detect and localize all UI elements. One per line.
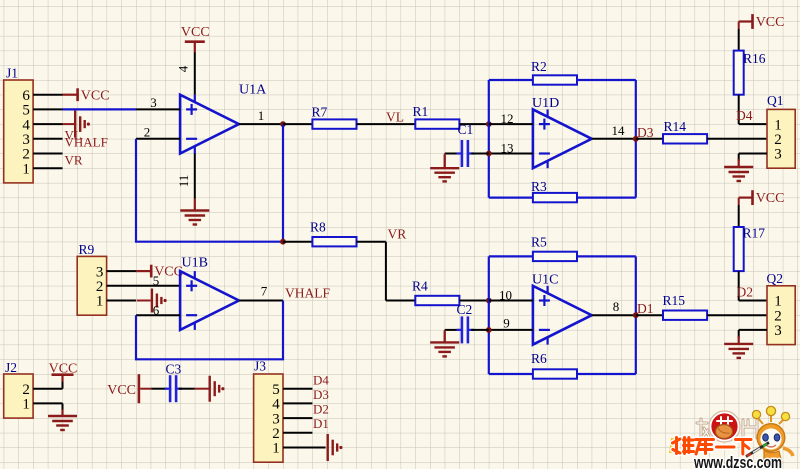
ground (rotated) at C3 — [210, 376, 225, 402]
net label D4 at J3 — [313, 372, 329, 387]
wire J1 pin 3 stub — [33, 138, 62, 140]
wire VR to R4 — [386, 300, 415, 302]
svg-text:R6: R6 — [531, 351, 547, 366]
wire J3 pin 2 stub — [283, 432, 312, 434]
ground riser at Q1 — [738, 154, 740, 162]
junction at net D3 — [633, 136, 639, 142]
wire U1C loop bottom left — [489, 373, 533, 375]
resistor R4 — [415, 296, 459, 305]
svg-text:1: 1 — [774, 294, 782, 310]
svg-text:6: 6 — [22, 88, 30, 104]
J1 pin 1 — [22, 161, 30, 177]
wire J2 pin 2 stub — [33, 388, 62, 390]
wire U1A output — [239, 123, 283, 125]
Q2 pin 3 — [774, 323, 782, 339]
wire C2 to junction — [471, 329, 489, 331]
power VCC above J2 — [49, 361, 78, 381]
U1A pin number 1 — [258, 108, 265, 123]
net label D1 — [637, 301, 654, 316]
connector R9 — [77, 256, 106, 315]
wire U1D loop top left — [489, 79, 533, 81]
svg-text:VR: VR — [65, 153, 83, 168]
J3 pin 3 — [272, 411, 280, 427]
svg-text:5: 5 — [272, 382, 280, 398]
Q1 pin 2 — [774, 132, 782, 148]
wire U1C loop left leg — [488, 256, 490, 374]
connector J2 — [4, 374, 33, 418]
svg-text:R7: R7 — [312, 105, 328, 120]
J3 pin 4 — [272, 397, 280, 413]
net label VL — [386, 109, 404, 124]
wire J2 pin 1 riser — [62, 403, 64, 410]
resistor R6 — [533, 369, 577, 378]
label Q1 — [767, 93, 784, 108]
svg-text:1: 1 — [258, 108, 265, 123]
junction at U1D pin 13 — [486, 151, 492, 157]
label J2 — [5, 360, 17, 375]
wire J2 pin 1 stub — [33, 402, 62, 404]
wire J2 pin 2 riser — [62, 381, 64, 389]
wire VCC to R17 — [738, 205, 740, 227]
net label D2 — [737, 284, 754, 299]
svg-text:D4: D4 — [313, 372, 329, 387]
svg-text:R17: R17 — [743, 226, 766, 241]
wire R15 to Q2 pin 2 — [707, 314, 767, 316]
U1A pin number 11 (rotated) — [176, 175, 191, 188]
resistor R17 — [734, 227, 744, 271]
junction at U1C pin 10 — [486, 298, 492, 304]
power VCC top right — [739, 14, 785, 30]
wire D1 to R15 — [636, 314, 663, 316]
wire U1C loop top left — [489, 255, 533, 257]
svg-text:1: 1 — [272, 441, 280, 457]
J1 pin 3 — [22, 132, 30, 148]
connector Q1 — [767, 109, 795, 168]
svg-text:C1: C1 — [458, 122, 474, 137]
label R17 — [743, 226, 766, 241]
svg-text:VCC: VCC — [81, 88, 110, 103]
wire VCC to C3 (red) — [140, 388, 167, 390]
wire Q2 pin 3 stub — [739, 329, 767, 331]
svg-text:2: 2 — [774, 308, 782, 324]
wire D2 to Q2 pin 1 — [739, 300, 767, 302]
ground riser at C1 — [444, 154, 446, 169]
R9 pin 1 — [96, 294, 104, 310]
power VCC at J1 pin 6 — [63, 88, 110, 103]
wire VCC to R16 — [738, 29, 740, 51]
U1C pin number 9 — [503, 316, 510, 331]
junction at U1D pin 12 — [486, 121, 492, 127]
J1 pin 2 — [22, 147, 30, 163]
wire J1 pin 5 stub — [33, 108, 62, 110]
label Q2 — [767, 271, 784, 286]
label C3 — [166, 362, 182, 377]
wire U1D loop right upper leg — [635, 80, 637, 139]
svg-text:7: 7 — [261, 284, 268, 299]
svg-text:2: 2 — [96, 279, 104, 295]
ground (rotated) at J1 pin 4 — [63, 111, 91, 138]
wire J1 pin 4 stub — [33, 123, 62, 125]
net label D1 at J3 — [313, 416, 329, 431]
U1B pin number 7 — [261, 284, 268, 299]
svg-text:D1: D1 — [313, 416, 329, 431]
Q1 pin 3 — [774, 147, 782, 163]
ground below U1A — [180, 199, 209, 225]
net label VR at J1 — [65, 153, 83, 168]
wire D3 to R14 — [636, 138, 663, 140]
label J1 — [6, 66, 18, 81]
net label D3 at J3 — [313, 387, 329, 402]
capacitor C1 — [457, 140, 475, 167]
wire U1D output pin 14 — [592, 138, 636, 140]
junction at U1C pin 9 — [486, 327, 492, 333]
wire junction to R7 — [283, 123, 312, 125]
wire U1A pin 11 to ground — [194, 154, 196, 199]
svg-text:1: 1 — [774, 117, 782, 133]
svg-text:www.dzsc.com: www.dzsc.com — [693, 454, 782, 469]
wire net VL from J1 pin 5 (blue) — [63, 108, 137, 110]
svg-text:13: 13 — [501, 141, 514, 156]
wire J3 pin 3 stub — [283, 417, 312, 419]
wire R17 to D2 corner — [738, 271, 740, 300]
net label D2 at J3 — [313, 402, 329, 417]
net label VHALF at J1 — [65, 134, 108, 149]
wire U1A pin 2 stub — [136, 138, 180, 140]
wire U1D pin 13 stub — [489, 153, 533, 155]
ground below J2 — [48, 410, 77, 431]
power VCC at C3 — [107, 374, 139, 403]
op-amp U1D — [533, 109, 592, 168]
wire VR vertical — [385, 242, 387, 301]
connector Q2 — [767, 286, 795, 345]
U1A pin number 3 — [150, 95, 157, 110]
wire R9 pin 1 stub — [107, 300, 136, 302]
wire U1A feedback rail — [136, 139, 283, 242]
svg-text:VR: VR — [388, 226, 407, 241]
resistor R5 — [533, 252, 577, 261]
wire U1D pin 12 stub — [489, 123, 533, 125]
J2 pin 2 — [22, 382, 30, 398]
label U1A — [239, 83, 267, 98]
J2 pin 1 — [22, 397, 30, 413]
label R2 — [531, 59, 547, 74]
svg-text:U1D: U1D — [532, 96, 559, 111]
resistor R2 — [533, 75, 577, 84]
J3 pin 2 — [272, 426, 280, 442]
label U1B — [182, 256, 208, 271]
net label D3 — [637, 125, 654, 140]
resistor R3 — [533, 193, 577, 202]
connector J1 — [4, 80, 33, 183]
wire U1A pin 4 to VCC — [194, 52, 196, 95]
power VCC at J2 (stem) — [62, 376, 64, 382]
net label VL at J1 — [65, 128, 82, 143]
resistor R8 — [312, 237, 356, 246]
net label VR — [388, 226, 407, 241]
label R7 — [312, 105, 328, 120]
wire R14 to Q1 pin 2 — [707, 138, 767, 140]
wire J3 pin 4 stub — [283, 402, 312, 404]
wire VCC to R17 (red part) — [738, 198, 740, 205]
wire U1C loop right lower leg — [635, 315, 637, 374]
svg-text:R1: R1 — [413, 104, 429, 119]
U1D pin number 13 — [501, 141, 514, 156]
svg-text:C2: C2 — [457, 302, 473, 317]
svg-text:4: 4 — [22, 117, 30, 133]
svg-text:R16: R16 — [743, 51, 766, 66]
wire C3 to ground (red) — [179, 388, 209, 390]
U1A pin number 4 (rotated) — [176, 65, 191, 72]
resistor R14 — [663, 134, 707, 143]
wire U1C loop right upper leg — [635, 256, 637, 315]
svg-text:VCC: VCC — [49, 361, 78, 376]
U1C pin number 10 — [499, 288, 512, 303]
J3 pin 1 — [272, 441, 280, 457]
svg-text:D1: D1 — [637, 301, 654, 316]
wire U1B feedback loop — [136, 301, 283, 360]
svg-text:U1A: U1A — [239, 83, 267, 98]
label R9 — [79, 242, 95, 257]
wire R9 pin 3 stub — [107, 270, 136, 272]
connector J3 — [254, 374, 283, 462]
svg-text:4: 4 — [176, 65, 191, 72]
watermark logo dzsc — [669, 406, 793, 469]
svg-text:3: 3 — [22, 132, 30, 148]
svg-text:2: 2 — [22, 382, 30, 398]
label U1D — [532, 96, 559, 111]
svg-text:9: 9 — [503, 316, 510, 331]
svg-text:D3: D3 — [313, 387, 329, 402]
power VCC at R9 pin 3 — [136, 265, 183, 280]
wire R1 to U1D pin 12 — [459, 123, 488, 125]
power VCC above R17 — [739, 190, 785, 206]
svg-text:2: 2 — [144, 124, 151, 139]
svg-text:VCC: VCC — [181, 25, 210, 40]
U1D pin number 12 — [501, 111, 514, 126]
label R8 — [310, 220, 326, 235]
junction at U1A output — [280, 121, 286, 127]
label R1 — [413, 104, 429, 119]
svg-text:J3: J3 — [254, 359, 266, 374]
label R5 — [531, 235, 547, 250]
svg-text:J1: J1 — [6, 66, 18, 81]
label R14 — [664, 119, 687, 134]
label R4 — [412, 278, 428, 293]
svg-text:VHALF: VHALF — [285, 286, 330, 301]
wire U1B output pin 7 — [239, 300, 283, 302]
wire C1 to junction — [471, 153, 489, 155]
svg-text:8: 8 — [613, 299, 620, 314]
op-amp U1B — [180, 271, 239, 330]
J1 pin 6 — [22, 88, 30, 104]
svg-text:J2: J2 — [5, 360, 17, 375]
wire VCC to R16 (red part) — [738, 22, 740, 30]
resistor R7 — [312, 119, 356, 128]
wire J3 pin 5 stub — [283, 388, 312, 390]
label R15 — [663, 293, 686, 308]
label J3 — [254, 359, 266, 374]
ground below Q1 — [724, 159, 753, 181]
svg-text:14: 14 — [612, 123, 626, 138]
junction at VR rail — [280, 239, 286, 245]
power VCC above U1A — [181, 25, 210, 53]
svg-text:VL: VL — [386, 109, 404, 124]
resistor R1 — [415, 119, 459, 128]
svg-text:R14: R14 — [664, 119, 687, 134]
label R6 — [531, 351, 547, 366]
svg-text:2: 2 — [272, 426, 280, 442]
svg-text:R3: R3 — [531, 179, 547, 194]
svg-text:1: 1 — [22, 397, 30, 413]
svg-text:VHALF: VHALF — [65, 134, 108, 149]
svg-text:R4: R4 — [412, 278, 428, 293]
wire ground to C2 — [445, 329, 461, 331]
ground below C1 — [430, 155, 459, 181]
op-amp U1A — [180, 95, 239, 154]
U1C pin number 8 — [613, 299, 620, 314]
Q2 pin 2 — [774, 308, 782, 324]
wire J1 pin 6 stub — [33, 94, 62, 96]
op-amp U1C — [533, 286, 592, 345]
wire U1D loop left leg — [488, 80, 490, 198]
capacitor C2 — [457, 316, 475, 343]
wire ground to C1 — [445, 153, 461, 155]
svg-text:VCC: VCC — [756, 15, 785, 30]
wire U1D loop bottom right — [577, 197, 636, 199]
ground (rotated) at J3 pin 1 — [328, 434, 343, 461]
wire J1 pin 2 stub — [33, 153, 62, 155]
svg-text:Q2: Q2 — [767, 271, 784, 286]
J3 pin 5 — [272, 382, 280, 398]
ground riser at C2 — [444, 330, 446, 343]
U1D pin number 14 — [612, 123, 626, 138]
ground below C2 — [430, 331, 459, 356]
wire U1C loop top right — [577, 255, 636, 257]
svg-text:C3: C3 — [166, 362, 182, 377]
Q1 pin 1 — [774, 117, 782, 133]
svg-text:3: 3 — [774, 323, 782, 339]
svg-text:3: 3 — [774, 147, 782, 163]
resistor R15 — [663, 311, 707, 320]
svg-text:1: 1 — [96, 294, 104, 310]
ground riser at Q2 — [738, 330, 740, 338]
svg-text:R2: R2 — [531, 59, 547, 74]
R9 pin 3 — [96, 264, 104, 280]
J1 pin 4 — [22, 117, 30, 133]
net label D4 — [736, 108, 753, 123]
ground below Q2 — [724, 336, 753, 358]
resistor R16 — [734, 51, 744, 95]
ground (rotated) at R9 pin 1 — [137, 289, 167, 313]
svg-text:D2: D2 — [737, 284, 754, 299]
svg-text:D2: D2 — [313, 402, 329, 417]
svg-text:VCC: VCC — [107, 383, 136, 398]
capacitor C3 — [165, 375, 182, 402]
label C1 — [458, 122, 474, 137]
wire R4 to U1C pin 10 — [459, 300, 488, 302]
wire J3 pin 1 stub — [283, 447, 326, 449]
J1 pin 5 — [22, 103, 30, 119]
wire D4 to Q1 pin 1 — [739, 123, 767, 125]
svg-text:5: 5 — [22, 103, 30, 119]
svg-text:D4: D4 — [736, 108, 753, 123]
svg-text:11: 11 — [176, 175, 191, 188]
svg-text:3: 3 — [150, 95, 157, 110]
svg-text:2: 2 — [22, 147, 30, 163]
svg-text:R8: R8 — [310, 220, 326, 235]
wire rail to R8 — [283, 241, 312, 243]
junction at net D1 — [633, 312, 639, 318]
label C2 — [457, 302, 473, 317]
wire Q1 pin 3 stub — [739, 153, 767, 155]
net label VHALF — [285, 286, 330, 301]
svg-text:VCC: VCC — [756, 191, 785, 206]
wire U1C pin 9 stub — [489, 329, 533, 331]
wire U1D loop bottom left — [489, 197, 533, 199]
wire U1D loop right lower leg — [635, 139, 637, 198]
wire U1C loop bottom right — [577, 373, 636, 375]
svg-text:U1B: U1B — [182, 256, 208, 271]
Q2 pin 1 — [774, 294, 782, 310]
svg-text:3: 3 — [272, 411, 280, 427]
U1B pin number 6 — [153, 303, 160, 318]
svg-text:12: 12 — [501, 111, 514, 126]
svg-text:D3: D3 — [637, 125, 654, 140]
svg-text:10: 10 — [499, 288, 512, 303]
svg-text:Q1: Q1 — [767, 93, 784, 108]
U1B pin number 5 — [153, 273, 160, 288]
svg-text:U1C: U1C — [532, 273, 558, 288]
R9 pin 2 — [96, 279, 104, 295]
wire U1D loop top right — [577, 79, 636, 81]
wire R9 pin 2 to U1B pin 5 — [107, 285, 181, 287]
svg-text:3: 3 — [96, 264, 104, 280]
wire R8 to VR corner — [357, 241, 386, 243]
svg-text:4: 4 — [272, 397, 280, 413]
svg-text:1: 1 — [22, 161, 30, 177]
label U1C — [532, 273, 558, 288]
wire R7 to R1 net VL — [357, 123, 416, 125]
wire U1A feedback vertical — [282, 124, 284, 242]
U1A pin number 2 — [144, 124, 151, 139]
svg-text:R9: R9 — [79, 242, 95, 257]
svg-text:R15: R15 — [663, 293, 686, 308]
wire U1A pin 3 stub — [136, 108, 180, 110]
wire J1 pin 1 stub — [33, 167, 62, 169]
wire U1C output pin 8 — [592, 314, 636, 316]
label R3 — [531, 179, 547, 194]
svg-text:5: 5 — [153, 273, 160, 288]
wire U1B pin 6 stub — [136, 314, 180, 316]
wire U1C pin 10 stub — [489, 300, 533, 302]
svg-text:R5: R5 — [531, 235, 547, 250]
label R16 — [743, 51, 766, 66]
svg-text:2: 2 — [774, 132, 782, 148]
wire R16 to D4 corner — [738, 95, 740, 124]
